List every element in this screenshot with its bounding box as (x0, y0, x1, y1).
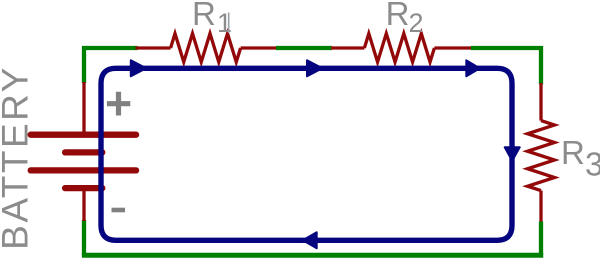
svg-text:2: 2 (409, 8, 424, 38)
svg-text:BATTERY: BATTERY (0, 65, 36, 250)
battery plate short upper (65, 149, 102, 155)
battery bottom lead (red) (82, 188, 85, 221)
battery plate long top (31, 132, 136, 138)
resistor R3 (528, 121, 555, 191)
wire top middle segment (green) (276, 46, 332, 50)
wire R3 bottom lead (red) (539, 191, 542, 223)
text caret after R1 (228, 13, 230, 34)
svg-text:3: 3 (585, 145, 600, 182)
svg-text:1: 1 (217, 8, 232, 38)
current arrow top 1 (131, 60, 146, 76)
wire bottom (green) (82, 253, 543, 258)
wire left lower segment (green) (82, 220, 86, 255)
current arrow top 3 (466, 60, 480, 76)
battery plate short lower (65, 185, 102, 191)
wire R3 top lead (red) (539, 83, 542, 121)
current arrow bottom (left) (303, 232, 317, 248)
wire top-left corner (green) (84, 48, 138, 83)
wire R2 right lead (red) (434, 46, 472, 49)
current loop (blue) (101, 68, 512, 240)
wire R1 right lead (red) (241, 46, 277, 49)
svg-text:R: R (192, 0, 216, 32)
wire R2 left lead (red) (331, 46, 364, 49)
battery plus sign (107, 92, 130, 116)
wire top-right corner (green) (471, 48, 541, 84)
wire right lower segment (green) (539, 222, 543, 256)
wire R1 left lead (red) (136, 46, 171, 49)
current arrow right (down) (505, 147, 520, 161)
svg-text:R: R (386, 0, 410, 32)
resistor R2 (364, 34, 434, 63)
svg-text:R: R (561, 134, 585, 171)
resistor R1 (171, 34, 241, 63)
battery top lead (red) (82, 82, 85, 135)
battery minus sign (112, 208, 126, 213)
current arrow top 2 (307, 60, 322, 76)
battery plate long bottom (31, 167, 136, 173)
